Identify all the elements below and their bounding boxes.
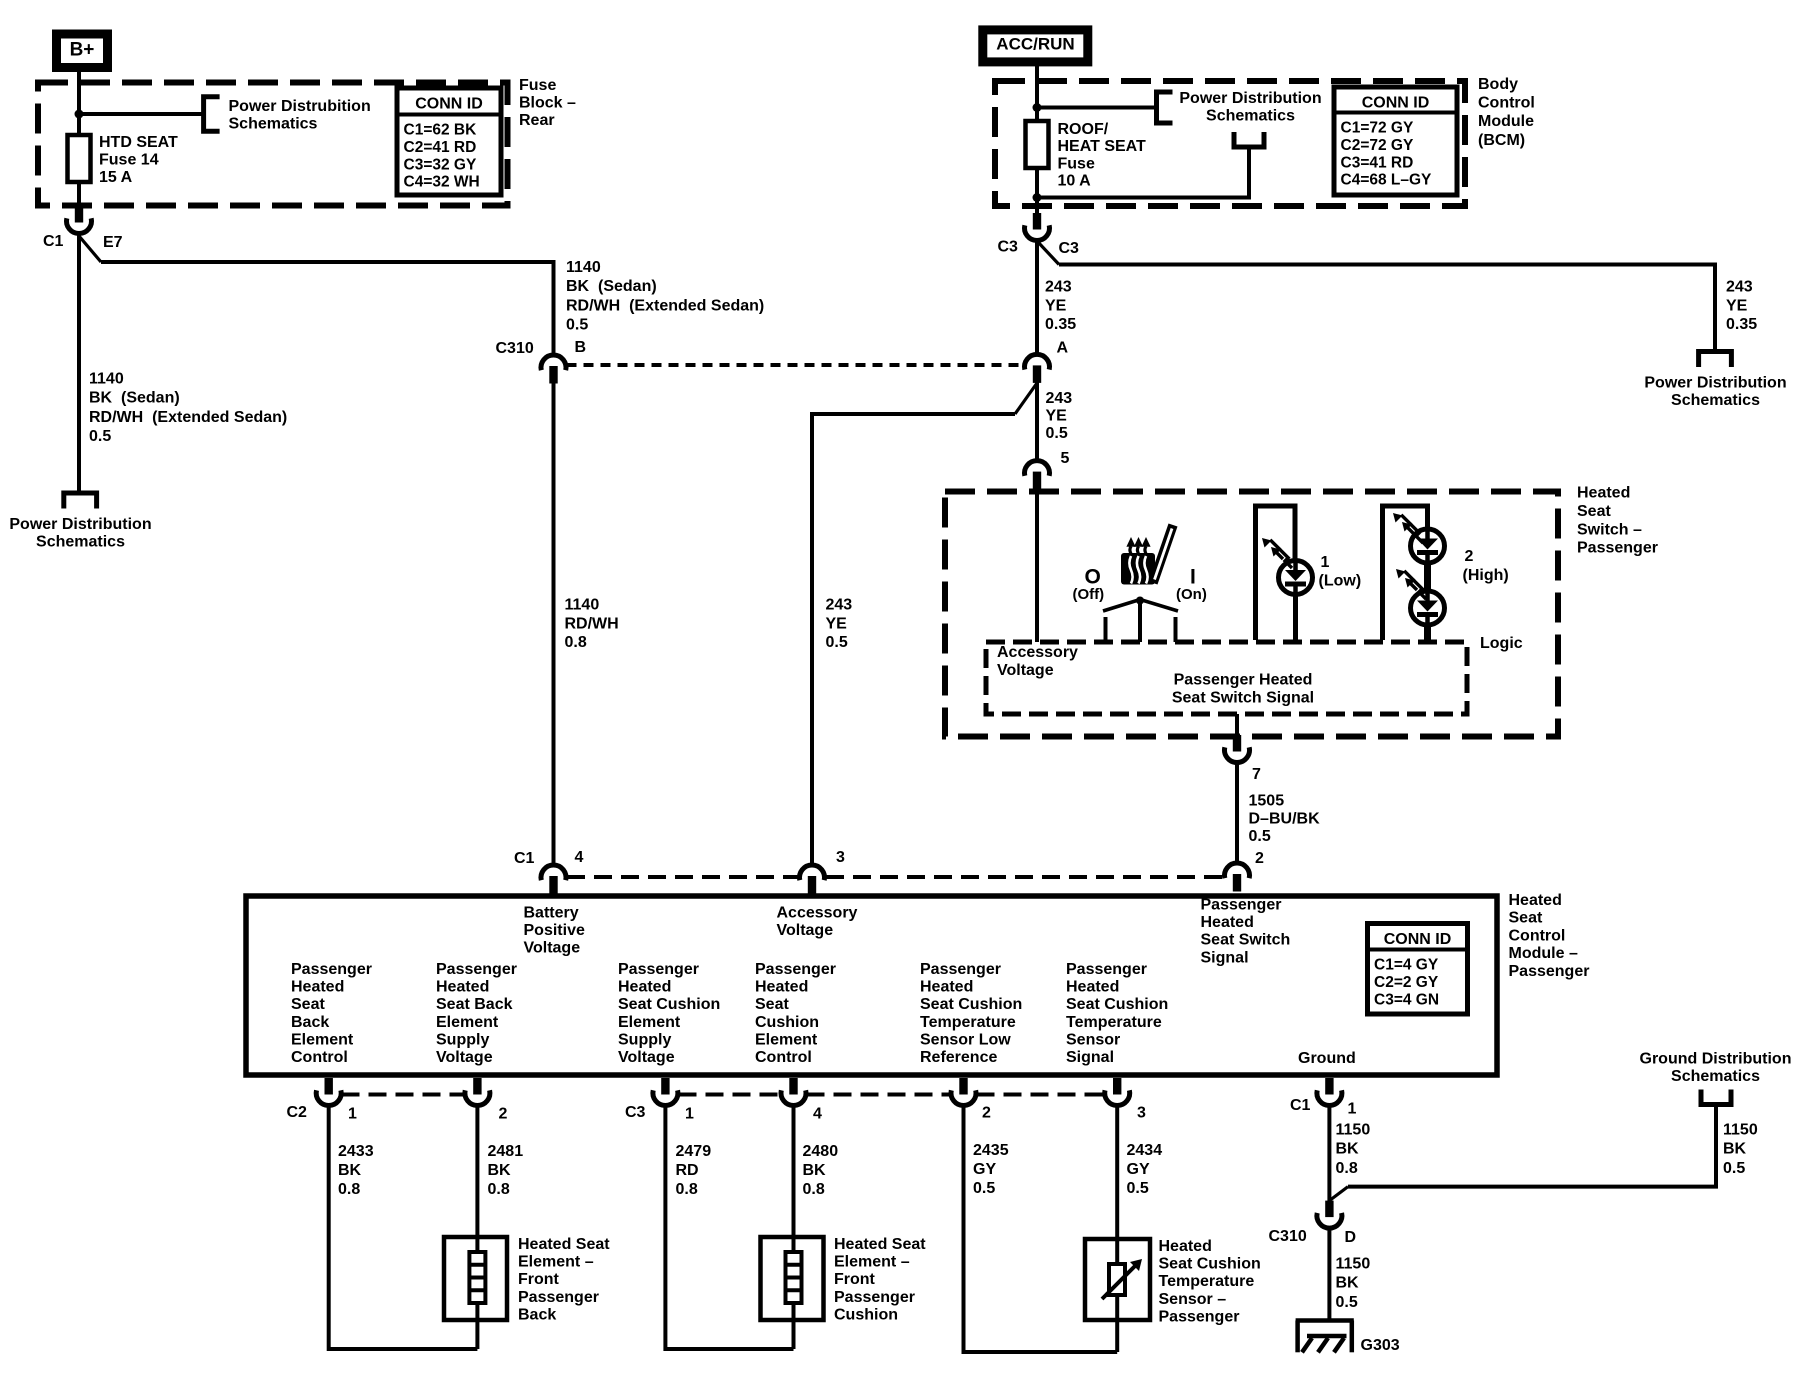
svg-text:Power Distribution: Power Distribution	[9, 516, 151, 533]
wire to off-page bracket (BCM)	[1037, 106, 1157, 110]
svg-text:15 A: 15 A	[99, 169, 133, 186]
svg-text:RD/WH: RD/WH	[565, 615, 619, 632]
ground G303	[1296, 1318, 1354, 1323]
svg-text:Ground: Ground	[1298, 1050, 1356, 1067]
svg-text:Voltage: Voltage	[618, 1049, 675, 1066]
svg-text:Logic: Logic	[1480, 635, 1523, 652]
svg-text:243: 243	[1046, 390, 1073, 407]
connector C2-2 (module bottom)	[473, 1078, 481, 1095]
svg-text:(Off): (Off)	[1073, 586, 1105, 603]
wire A branch to module pin 3	[812, 414, 1015, 865]
svg-text:Passenger: Passenger	[518, 1289, 599, 1306]
svg-text:BK: BK	[1336, 1141, 1360, 1158]
heated seat switch dashed box	[945, 492, 1558, 737]
svg-text:Schematics: Schematics	[1671, 1068, 1760, 1085]
svg-text:YE: YE	[826, 615, 848, 632]
svg-text:Module –: Module –	[1509, 945, 1578, 962]
wire B+ to fuse	[77, 68, 81, 136]
power terminal B+	[57, 34, 108, 68]
svg-text:A: A	[1057, 340, 1069, 357]
svg-text:Front: Front	[518, 1271, 560, 1288]
wire A branch diagonal	[1015, 383, 1037, 414]
svg-text:(High): (High)	[1463, 567, 1509, 584]
wire C3 branch to right edge	[1059, 265, 1715, 352]
svg-text:YE: YE	[1046, 407, 1068, 424]
svg-text:(BCM): (BCM)	[1478, 132, 1525, 149]
svg-text:Heated: Heated	[1201, 914, 1254, 931]
svg-text:Seat Cushion: Seat Cushion	[618, 996, 720, 1013]
wire fuse down	[1035, 168, 1039, 214]
svg-text:Block –: Block –	[519, 95, 576, 112]
LED 2a arrows	[1401, 515, 1414, 534]
dashed wire C3/C1 pins b	[807, 1093, 951, 1097]
svg-text:C4=68 L–GY: C4=68 L–GY	[1341, 172, 1433, 189]
power terminal ACC/RUN	[983, 30, 1088, 62]
svg-text:Passenger: Passenger	[1159, 1308, 1240, 1325]
svg-text:2: 2	[982, 1105, 991, 1122]
svg-text:Heated: Heated	[755, 979, 808, 996]
svg-text:4: 4	[575, 849, 584, 866]
dashed wire C3/C1 pins a	[679, 1093, 781, 1097]
svg-text:Heated: Heated	[1509, 892, 1562, 909]
svg-text:Signal: Signal	[1066, 1049, 1114, 1066]
svg-text:C4=32 WH: C4=32 WH	[404, 174, 480, 191]
svg-text:C1=62 BK: C1=62 BK	[404, 122, 478, 139]
svg-text:C3: C3	[998, 239, 1019, 256]
svg-text:Back: Back	[291, 1014, 329, 1031]
heated seat element back box	[444, 1237, 507, 1320]
svg-text:Heated: Heated	[1577, 485, 1630, 502]
svg-text:C310: C310	[1269, 1228, 1307, 1245]
svg-text:BK: BK	[1723, 1141, 1747, 1158]
svg-text:CONN ID: CONN ID	[1362, 95, 1430, 112]
svg-text:Heated Seat: Heated Seat	[518, 1236, 610, 1253]
svg-text:1140: 1140	[565, 597, 600, 614]
svg-text:1140: 1140	[89, 371, 124, 388]
svg-text:HEAT SEAT: HEAT SEAT	[1058, 138, 1147, 155]
svg-text:Seat Switch Signal: Seat Switch Signal	[1172, 690, 1314, 707]
svg-text:1: 1	[685, 1106, 694, 1123]
svg-text:BK: BK	[803, 1162, 827, 1179]
wire to U bracket	[1037, 147, 1249, 198]
wire LED1 to logic	[1293, 595, 1298, 641]
dashed wire module top pins a	[567, 875, 800, 879]
svg-text:Signal: Signal	[1201, 949, 1249, 966]
svg-text:0.8: 0.8	[1336, 1160, 1358, 1177]
svg-text:Heated: Heated	[618, 979, 671, 996]
wire 1505 to connector 2	[1235, 762, 1239, 864]
svg-text:Voltage: Voltage	[997, 662, 1054, 679]
svg-text:Element –: Element –	[834, 1254, 910, 1271]
heated seat element back symbol	[469, 1252, 485, 1303]
svg-text:Ground Distribution: Ground Distribution	[1640, 1051, 1792, 1068]
body control module dashed box	[995, 81, 1465, 206]
svg-text:C1: C1	[514, 850, 535, 867]
heated seat element cushion box	[761, 1237, 824, 1320]
svg-text:GY: GY	[973, 1161, 996, 1178]
off-page connector power distribution (BCM)	[1157, 92, 1173, 123]
wire 1140 left branch down	[77, 233, 81, 493]
junction	[75, 110, 84, 119]
svg-text:Fuse: Fuse	[519, 77, 556, 94]
svg-text:Passenger: Passenger	[1509, 963, 1590, 980]
svg-text:Passenger: Passenger	[436, 961, 517, 978]
LED 2 loop	[1383, 506, 1428, 640]
connector C1-4 (module top)	[541, 865, 566, 880]
svg-text:243: 243	[826, 597, 853, 614]
switch pole stubs	[1104, 617, 1108, 642]
connector 3 (module top)	[800, 865, 825, 880]
svg-text:RD: RD	[676, 1162, 699, 1179]
svg-text:Heated: Heated	[1066, 979, 1119, 996]
svg-text:2481: 2481	[488, 1143, 524, 1160]
svg-text:Sensor Low: Sensor Low	[920, 1031, 1011, 1048]
svg-text:B: B	[575, 339, 587, 356]
svg-text:0.5: 0.5	[1127, 1180, 1149, 1197]
svg-text:Seat Cushion: Seat Cushion	[1066, 996, 1168, 1013]
svg-text:243: 243	[1045, 279, 1072, 296]
svg-text:Passenger: Passenger	[291, 961, 372, 978]
svg-text:3: 3	[836, 849, 845, 866]
svg-text:D–BU/BK: D–BU/BK	[1249, 810, 1321, 827]
svg-text:2434: 2434	[1127, 1142, 1163, 1159]
svg-text:Seat: Seat	[1509, 910, 1543, 927]
svg-text:B+: B+	[70, 40, 95, 61]
svg-text:7: 7	[1252, 766, 1261, 783]
wire 2435 down	[964, 1105, 1118, 1352]
svg-text:BK: BK	[338, 1162, 362, 1179]
svg-text:Element: Element	[755, 1031, 818, 1048]
svg-text:0.35: 0.35	[1045, 316, 1076, 333]
svg-text:Schematics: Schematics	[1671, 392, 1760, 409]
svg-text:RD/WH (Extended Sedan): RD/WH (Extended Sedan)	[89, 409, 287, 426]
svg-text:Control: Control	[1478, 95, 1535, 112]
connector table CONN ID fuse block	[397, 88, 501, 195]
svg-text:Heated Seat: Heated Seat	[834, 1236, 926, 1253]
svg-text:G303: G303	[1361, 1337, 1400, 1354]
svg-text:C1=72 GY: C1=72 GY	[1341, 120, 1414, 137]
svg-text:C3=4 GN: C3=4 GN	[1374, 991, 1439, 1008]
svg-text:C3: C3	[625, 1104, 646, 1121]
wire 2479 down	[665, 1105, 793, 1349]
connector 7	[1233, 735, 1241, 752]
off-page connector power distribution (left)	[64, 493, 97, 509]
svg-text:Fuse 14: Fuse 14	[99, 152, 159, 169]
svg-text:Voltage: Voltage	[777, 922, 834, 939]
svg-text:2480: 2480	[803, 1143, 839, 1160]
LED 1 (Low)	[1279, 561, 1313, 595]
svg-text:YE: YE	[1726, 297, 1748, 314]
svg-text:C1=4 GY: C1=4 GY	[1374, 957, 1439, 974]
connector C2-1 (module bottom)	[325, 1078, 333, 1095]
connector C1-2 (module bottom)	[959, 1078, 967, 1095]
dashed wire C3/C1 pins c	[977, 1093, 1105, 1097]
thermistor symbol	[1109, 1264, 1125, 1295]
svg-text:Passenger: Passenger	[618, 961, 699, 978]
wire E7 branch to C310	[101, 262, 554, 355]
wire 2433 down	[329, 1105, 478, 1349]
fuse ROOF/HEAT SEAT	[1026, 121, 1049, 168]
svg-text:Passenger: Passenger	[834, 1289, 915, 1306]
wire to off-page bracket	[79, 112, 204, 116]
wire 1150 BK 0.5 to ground	[1327, 1227, 1331, 1321]
svg-text:Sensor –: Sensor –	[1159, 1291, 1227, 1308]
svg-text:10 A: 10 A	[1058, 173, 1092, 190]
fuse block - rear dashed box	[38, 83, 508, 206]
svg-text:C3=41 RD: C3=41 RD	[1341, 154, 1414, 171]
svg-text:Cushion: Cushion	[755, 1014, 819, 1031]
svg-text:Voltage: Voltage	[524, 940, 581, 957]
svg-text:Back: Back	[518, 1306, 556, 1323]
svg-text:ROOF/: ROOF/	[1058, 121, 1109, 138]
svg-text:ACC/RUN: ACC/RUN	[996, 35, 1074, 54]
svg-text:Element: Element	[436, 1014, 499, 1031]
svg-text:Element: Element	[291, 1031, 354, 1048]
svg-text:0.35: 0.35	[1726, 316, 1757, 333]
svg-text:Power Distrubition: Power Distrubition	[229, 98, 371, 115]
svg-text:Heated: Heated	[1159, 1238, 1212, 1255]
junction	[1033, 103, 1042, 112]
svg-text:0.5: 0.5	[566, 317, 588, 334]
svg-text:RD/WH (Extended Sedan): RD/WH (Extended Sedan)	[566, 297, 764, 314]
svg-text:Passenger: Passenger	[1066, 961, 1147, 978]
svg-text:C3: C3	[1059, 240, 1080, 257]
svg-text:Rear: Rear	[519, 112, 555, 129]
svg-text:Seat: Seat	[291, 996, 325, 1013]
svg-text:Heated: Heated	[291, 979, 344, 996]
svg-text:Schematics: Schematics	[36, 533, 125, 550]
svg-text:BK: BK	[1336, 1275, 1360, 1292]
LED 2b (High)	[1411, 591, 1445, 625]
svg-text:BK: BK	[488, 1162, 512, 1179]
svg-text:3: 3	[1137, 1105, 1146, 1122]
connector C1-3 (module bottom)	[1113, 1078, 1121, 1095]
connector C3 C3	[1033, 213, 1041, 230]
svg-text:Seat: Seat	[1577, 503, 1611, 520]
wire fuse to C1 connector	[77, 182, 81, 207]
off-page connector power distribution (right)	[1699, 352, 1732, 368]
svg-text:1: 1	[1348, 1101, 1357, 1118]
svg-text:2435: 2435	[973, 1142, 1009, 1159]
svg-text:2479: 2479	[676, 1143, 712, 1160]
svg-text:C310: C310	[496, 340, 534, 357]
svg-text:Passenger: Passenger	[755, 961, 836, 978]
svg-text:Control: Control	[755, 1049, 812, 1066]
svg-text:1: 1	[1321, 554, 1330, 571]
svg-text:Temperature: Temperature	[920, 1014, 1016, 1031]
svg-text:4: 4	[813, 1106, 822, 1123]
svg-text:Seat: Seat	[755, 996, 789, 1013]
svg-text:BK (Sedan): BK (Sedan)	[89, 390, 180, 407]
svg-text:Passenger: Passenger	[1577, 540, 1658, 557]
off-page connector (BCM lower)	[1234, 132, 1264, 147]
svg-text:CONN ID: CONN ID	[415, 96, 483, 113]
connector C1-1 (module bottom)	[1325, 1078, 1333, 1095]
svg-text:C2=2 GY: C2=2 GY	[1374, 974, 1439, 991]
svg-text:C1: C1	[1290, 1097, 1311, 1114]
svg-text:0.5: 0.5	[826, 634, 848, 651]
wire LED2a to LED2b	[1424, 563, 1431, 591]
connector table CONN ID BCM	[1334, 87, 1457, 195]
svg-text:Power Distribution: Power Distribution	[1644, 375, 1786, 392]
svg-text:Seat Back: Seat Back	[436, 996, 513, 1013]
svg-text:Body: Body	[1478, 76, 1518, 93]
wire LED2b to logic	[1424, 625, 1431, 640]
dashed wire module top pins b	[826, 875, 1223, 879]
connector C3-1 (module bottom)	[661, 1078, 669, 1095]
wire A to 5	[1035, 381, 1039, 461]
wire element to loop 2	[792, 1303, 796, 1349]
wire ACC/RUN to fuse	[1035, 62, 1039, 121]
svg-text:Power Distribution: Power Distribution	[1179, 90, 1321, 107]
svg-text:Supply: Supply	[436, 1031, 489, 1048]
wire 1150 BK 0.8 down	[1327, 1105, 1331, 1201]
wire 2481 down	[475, 1105, 479, 1252]
svg-text:(Low): (Low)	[1319, 573, 1362, 590]
svg-text:Reference: Reference	[920, 1049, 997, 1066]
svg-text:0.5: 0.5	[973, 1180, 995, 1197]
svg-text:C1: C1	[43, 233, 64, 250]
svg-text:Fuse: Fuse	[1058, 155, 1095, 172]
LED 2a (High)	[1411, 529, 1445, 563]
wire 1150 BK 0.5 right	[1348, 1105, 1716, 1187]
wire E7 branch diagonal	[79, 236, 101, 262]
connector C3-4 (module bottom)	[789, 1078, 797, 1095]
svg-text:Control: Control	[1509, 927, 1566, 944]
svg-text:Heated: Heated	[920, 979, 973, 996]
svg-text:E7: E7	[103, 234, 123, 251]
svg-text:0.8: 0.8	[565, 634, 587, 651]
svg-text:0.8: 0.8	[488, 1181, 510, 1198]
svg-text:Schematics: Schematics	[229, 116, 318, 133]
wire C3 branch diagonal	[1037, 241, 1059, 265]
svg-text:2: 2	[1465, 548, 1474, 565]
svg-text:HTD SEAT: HTD SEAT	[99, 134, 178, 151]
dashed wire C310-B to A	[567, 363, 1025, 367]
connector table CONN ID module	[1368, 924, 1468, 1015]
connector 5	[1025, 461, 1050, 476]
svg-text:Control: Control	[291, 1049, 348, 1066]
off-page connector ground distribution	[1701, 1090, 1731, 1105]
heated seat element cushion symbol	[786, 1252, 802, 1303]
fuse F14 HTD SEAT	[68, 135, 91, 182]
wire sensor to loop	[1115, 1295, 1119, 1352]
LED 2b arrows	[1404, 571, 1417, 590]
svg-text:Sensor: Sensor	[1066, 1031, 1120, 1048]
svg-text:5: 5	[1061, 450, 1070, 467]
svg-text:Passenger: Passenger	[1201, 897, 1282, 914]
svg-text:Schematics: Schematics	[1206, 108, 1295, 125]
svg-text:CONN ID: CONN ID	[1384, 931, 1452, 948]
svg-text:Switch –: Switch –	[1577, 521, 1642, 538]
svg-text:C3=32 GY: C3=32 GY	[404, 156, 477, 173]
svg-text:0.8: 0.8	[338, 1181, 360, 1198]
svg-text:1140: 1140	[566, 259, 601, 276]
svg-text:2: 2	[1255, 850, 1264, 867]
junction	[1033, 193, 1042, 202]
svg-text:YE: YE	[1045, 297, 1067, 314]
svg-text:Front: Front	[834, 1271, 876, 1288]
LED 1 arrows	[1270, 540, 1283, 559]
svg-text:(On): (On)	[1176, 586, 1207, 603]
dashed wire C2 pins	[342, 1093, 465, 1097]
svg-text:Passenger Heated: Passenger Heated	[1174, 672, 1313, 689]
svg-text:BK (Sedan): BK (Sedan)	[566, 278, 657, 295]
svg-text:Accessory: Accessory	[777, 905, 858, 922]
heated seat icon	[1121, 525, 1173, 585]
svg-text:Voltage: Voltage	[436, 1049, 493, 1066]
svg-text:0.8: 0.8	[803, 1181, 825, 1198]
wire C3 to A	[1035, 240, 1039, 355]
svg-text:C2: C2	[287, 1104, 308, 1121]
svg-text:0.5: 0.5	[1723, 1160, 1745, 1177]
svg-text:0.5: 0.5	[1336, 1294, 1358, 1311]
svg-text:Positive: Positive	[524, 922, 585, 939]
svg-text:Battery: Battery	[524, 905, 579, 922]
connector C310 B	[541, 355, 566, 370]
wire 2480 down	[792, 1105, 796, 1252]
svg-text:Temperature: Temperature	[1066, 1014, 1162, 1031]
svg-text:1150: 1150	[1336, 1256, 1371, 1273]
svg-text:Cushion: Cushion	[834, 1306, 898, 1323]
svg-text:Accessory: Accessory	[997, 644, 1078, 661]
svg-text:Supply: Supply	[618, 1031, 671, 1048]
svg-text:243: 243	[1726, 279, 1753, 296]
connector A	[1025, 354, 1050, 369]
wire 1140 RD/WH to module	[552, 382, 556, 865]
svg-text:Temperature: Temperature	[1159, 1273, 1255, 1290]
wire element to loop	[475, 1303, 479, 1349]
svg-text:0.5: 0.5	[89, 428, 111, 445]
svg-text:0.5: 0.5	[1249, 828, 1271, 845]
svg-text:1: 1	[348, 1106, 357, 1123]
svg-text:C2=72 GY: C2=72 GY	[1341, 137, 1414, 154]
svg-text:Passenger: Passenger	[920, 961, 1001, 978]
svg-text:Element –: Element –	[518, 1254, 594, 1271]
svg-text:2: 2	[499, 1106, 508, 1123]
svg-text:C2=41 RD: C2=41 RD	[404, 139, 477, 156]
wire 2434 down	[1115, 1105, 1119, 1264]
svg-text:Seat Cushion: Seat Cushion	[1159, 1256, 1261, 1273]
svg-text:2433: 2433	[338, 1143, 374, 1160]
svg-text:GY: GY	[1127, 1161, 1150, 1178]
LED 1 loop	[1256, 506, 1296, 640]
svg-text:Module: Module	[1478, 113, 1534, 130]
temperature sensor box	[1085, 1239, 1150, 1320]
connector C310 D	[1325, 1201, 1333, 1218]
svg-text:Element: Element	[618, 1014, 681, 1031]
switch rocker	[1103, 600, 1178, 612]
connector 2	[1225, 863, 1250, 878]
heated seat control module box	[246, 896, 1497, 1075]
connector C1 E7	[75, 206, 83, 223]
svg-text:0.8: 0.8	[676, 1181, 698, 1198]
svg-text:1150: 1150	[1336, 1122, 1371, 1139]
svg-text:Seat Switch: Seat Switch	[1201, 932, 1291, 949]
off-page connector to Power Distrubition Schematics	[204, 97, 220, 132]
svg-text:1505: 1505	[1249, 793, 1285, 810]
svg-text:D: D	[1345, 1229, 1357, 1246]
logic dashed box	[986, 642, 1467, 714]
wire merge diagonal	[1329, 1187, 1348, 1201]
svg-text:Heated: Heated	[436, 979, 489, 996]
wire 5 into switch	[1035, 487, 1039, 642]
svg-text:1150: 1150	[1723, 1122, 1758, 1139]
svg-text:0.5: 0.5	[1046, 425, 1068, 442]
wire switch signal out	[1235, 714, 1239, 736]
svg-text:Seat Cushion: Seat Cushion	[920, 996, 1022, 1013]
